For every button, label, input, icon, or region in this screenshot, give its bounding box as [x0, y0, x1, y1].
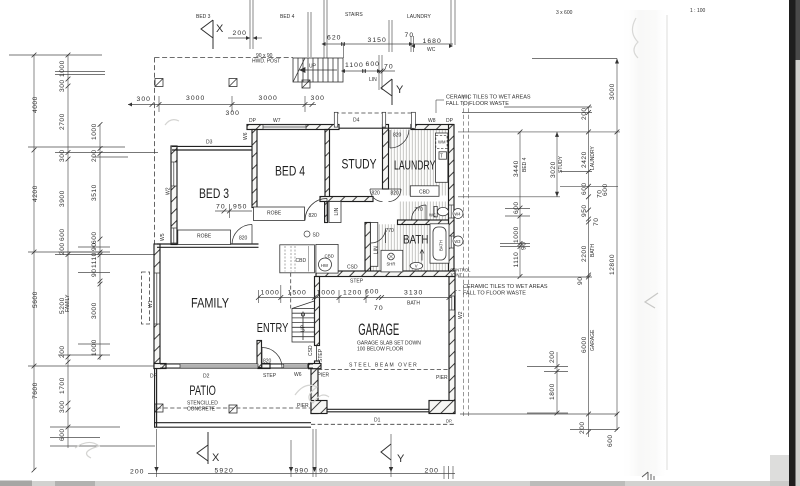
- svg-text:3000: 3000: [259, 95, 278, 102]
- svg-text:BATH: BATH: [590, 244, 596, 257]
- svg-text:90: 90: [521, 242, 528, 250]
- svg-text:1000: 1000: [317, 290, 336, 297]
- svg-text:FALL TO FLOOR WASTE: FALL TO FLOOR WASTE: [463, 291, 526, 297]
- svg-text:1 : 100: 1 : 100: [690, 8, 706, 14]
- svg-text:600: 600: [91, 231, 98, 244]
- svg-text:1800: 1800: [549, 383, 556, 400]
- svg-text:PATIO: PATIO: [189, 382, 216, 398]
- svg-text:BED 4: BED 4: [275, 164, 305, 179]
- svg-text:HW: HW: [321, 263, 329, 268]
- svg-text:600: 600: [513, 201, 520, 214]
- svg-text:3020: 3020: [550, 161, 557, 178]
- svg-text:12800: 12800: [609, 254, 616, 275]
- svg-text:770: 770: [386, 228, 395, 234]
- svg-text:300: 300: [226, 110, 241, 117]
- svg-text:W1: W1: [148, 300, 154, 308]
- svg-text:CERAMIC TILES TO WET AREAS: CERAMIC TILES TO WET AREAS: [446, 95, 531, 101]
- svg-text:600: 600: [366, 61, 381, 68]
- svg-text:LAUNDRY: LAUNDRY: [590, 146, 596, 170]
- svg-text:BED 4: BED 4: [280, 14, 295, 20]
- svg-text:WC: WC: [429, 213, 436, 218]
- svg-text:DP: DP: [150, 374, 158, 380]
- svg-text:3000: 3000: [609, 83, 616, 100]
- svg-text:BED 3: BED 3: [199, 186, 229, 201]
- svg-text:90: 90: [91, 269, 98, 277]
- svg-text:70: 70: [384, 64, 394, 71]
- svg-text:UP: UP: [301, 324, 307, 332]
- svg-text:ENTRY: ENTRY: [257, 321, 289, 335]
- svg-text:BATH: BATH: [403, 233, 429, 247]
- svg-text:W4: W4: [454, 212, 461, 217]
- svg-text:200: 200: [91, 149, 98, 162]
- svg-text:SD: SD: [313, 233, 320, 239]
- svg-text:600: 600: [365, 289, 380, 296]
- svg-text:W2: W2: [166, 187, 172, 195]
- svg-text:90: 90: [91, 243, 98, 251]
- svg-text:X: X: [216, 23, 224, 35]
- svg-text:FAMILY: FAMILY: [65, 294, 71, 312]
- svg-text:PIER: PIER: [318, 373, 330, 379]
- svg-text:FAMILY: FAMILY: [191, 295, 229, 310]
- svg-text:STAIRS: STAIRS: [345, 12, 363, 18]
- svg-text:1000: 1000: [261, 290, 280, 297]
- svg-text:X: X: [212, 452, 220, 464]
- svg-text:200: 200: [425, 468, 440, 475]
- svg-text:990: 990: [295, 468, 310, 475]
- svg-text:70: 70: [593, 218, 600, 226]
- svg-text:600: 600: [59, 428, 66, 441]
- svg-text:5600: 5600: [32, 291, 39, 308]
- svg-text:1000: 1000: [59, 60, 66, 77]
- svg-text:3510: 3510: [91, 184, 98, 201]
- svg-text:950: 950: [581, 204, 588, 217]
- svg-text:SHR: SHR: [387, 262, 396, 267]
- svg-text:LAUNDRY: LAUNDRY: [407, 14, 431, 20]
- svg-text:1000: 1000: [513, 226, 520, 243]
- svg-text:200: 200: [59, 242, 66, 255]
- svg-text:3440: 3440: [513, 160, 520, 177]
- svg-text:2700: 2700: [59, 113, 66, 130]
- svg-text:BATH: BATH: [439, 240, 444, 251]
- svg-text:200: 200: [130, 469, 145, 476]
- svg-text:D1: D1: [374, 418, 381, 424]
- svg-text:D4: D4: [353, 118, 360, 124]
- svg-text:70: 70: [216, 204, 226, 211]
- svg-text:300: 300: [59, 400, 66, 413]
- svg-text:600: 600: [581, 182, 588, 195]
- svg-text:D3: D3: [206, 140, 213, 146]
- svg-text:820: 820: [393, 133, 402, 139]
- svg-text:2200: 2200: [581, 245, 588, 262]
- svg-text:FALL TO FLOOR WASTE: FALL TO FLOOR WASTE: [446, 101, 509, 107]
- svg-text:3900: 3900: [59, 190, 66, 207]
- svg-text:7600: 7600: [32, 382, 39, 399]
- svg-text:1680: 1680: [423, 38, 442, 45]
- svg-text:1000: 1000: [91, 123, 98, 140]
- svg-text:STEEL BEAM OVER: STEEL BEAM OVER: [349, 363, 418, 369]
- svg-text:1200: 1200: [343, 290, 362, 297]
- svg-text:CONCRETE: CONCRETE: [187, 407, 216, 413]
- svg-text:3150: 3150: [368, 37, 387, 44]
- svg-text:GARAGE: GARAGE: [590, 329, 596, 351]
- svg-text:4200: 4200: [32, 185, 39, 202]
- svg-text:1000: 1000: [91, 339, 98, 356]
- svg-text:CSD: CSD: [308, 345, 314, 356]
- svg-text:70: 70: [374, 305, 384, 312]
- svg-text:820: 820: [263, 359, 272, 365]
- svg-text:W3: W3: [454, 239, 461, 244]
- svg-text:V: V: [415, 264, 418, 269]
- svg-text:1700: 1700: [59, 377, 66, 394]
- svg-text:CBD: CBD: [325, 254, 335, 259]
- svg-text:770: 770: [415, 207, 424, 213]
- svg-text:620: 620: [327, 35, 342, 42]
- svg-text:CERAMIC TILES TO WET AREAS: CERAMIC TILES TO WET AREAS: [463, 284, 548, 290]
- svg-text:LIN: LIN: [374, 246, 380, 254]
- svg-text:3130: 3130: [404, 290, 423, 297]
- svg-text:820: 820: [391, 191, 400, 197]
- svg-text:1100: 1100: [345, 62, 364, 69]
- svg-text:90: 90: [577, 277, 584, 285]
- svg-text:1110: 1110: [513, 252, 520, 268]
- svg-text:STUDY: STUDY: [558, 155, 564, 173]
- svg-text:W6: W6: [243, 132, 249, 140]
- svg-text:LIN: LIN: [334, 207, 340, 215]
- svg-text:1500: 1500: [288, 290, 307, 297]
- svg-text:W5: W5: [160, 233, 166, 241]
- svg-text:200: 200: [59, 345, 66, 358]
- svg-text:DP: DP: [446, 118, 454, 124]
- svg-text:600: 600: [607, 434, 614, 447]
- svg-text:70: 70: [597, 190, 604, 198]
- svg-text:GARAGE: GARAGE: [358, 321, 399, 339]
- svg-text:70: 70: [405, 32, 415, 39]
- svg-text:T: T: [440, 154, 443, 160]
- svg-text:820: 820: [239, 236, 248, 242]
- svg-text:CSD: CSD: [347, 265, 358, 271]
- svg-text:UP: UP: [309, 64, 317, 70]
- svg-text:LIN: LIN: [369, 77, 377, 83]
- svg-text:300: 300: [137, 96, 152, 103]
- svg-text:CBD: CBD: [296, 258, 307, 264]
- svg-text:1110: 1110: [91, 252, 98, 268]
- svg-text:200: 200: [581, 107, 588, 120]
- svg-text:HWD. POST: HWD. POST: [252, 59, 280, 65]
- svg-text:ROBE: ROBE: [267, 211, 282, 217]
- svg-text:820: 820: [372, 191, 381, 197]
- svg-text:Y: Y: [396, 84, 404, 96]
- svg-text:200: 200: [579, 421, 586, 434]
- svg-text:200: 200: [233, 30, 248, 37]
- svg-text:STEP: STEP: [263, 373, 277, 379]
- svg-text:STEP: STEP: [350, 279, 364, 285]
- svg-text:BATH: BATH: [407, 301, 420, 307]
- svg-text:6000: 6000: [581, 336, 588, 353]
- svg-text:BED 3: BED 3: [196, 14, 211, 20]
- svg-text:W8: W8: [428, 118, 436, 124]
- svg-text:PIER: PIER: [436, 375, 448, 381]
- svg-text:W2: W2: [458, 311, 464, 319]
- svg-text:ROBE: ROBE: [197, 234, 212, 240]
- svg-text:300: 300: [311, 95, 326, 102]
- svg-text:PIER: PIER: [297, 403, 309, 409]
- svg-text:600: 600: [59, 228, 66, 241]
- svg-text:Y: Y: [397, 453, 405, 465]
- svg-text:STUDY: STUDY: [342, 155, 377, 171]
- svg-text:820: 820: [309, 213, 318, 219]
- svg-text:STEP: STEP: [318, 348, 324, 362]
- svg-text:W7: W7: [273, 118, 281, 124]
- svg-text:3000: 3000: [186, 95, 205, 102]
- svg-text:3 x 600: 3 x 600: [556, 10, 573, 16]
- svg-text:5920: 5920: [215, 468, 234, 475]
- svg-text:WM: WM: [438, 140, 446, 145]
- svg-text:CBD: CBD: [419, 190, 430, 196]
- svg-text:300: 300: [59, 79, 66, 92]
- svg-text:WC: WC: [427, 47, 436, 53]
- svg-text:D2: D2: [203, 374, 210, 380]
- svg-text:BED 4: BED 4: [522, 157, 528, 172]
- svg-text:3000: 3000: [91, 302, 98, 319]
- svg-text:100 BELOW FLOOR: 100 BELOW FLOOR: [357, 347, 404, 353]
- svg-text:2420: 2420: [581, 151, 588, 168]
- svg-text:4000: 4000: [32, 96, 39, 113]
- svg-text:W6: W6: [294, 372, 302, 378]
- svg-text:DP.: DP.: [446, 419, 452, 424]
- svg-text:DP: DP: [249, 118, 257, 124]
- svg-text:300: 300: [59, 149, 66, 162]
- svg-text:90: 90: [319, 468, 329, 475]
- svg-text:950: 950: [233, 204, 248, 211]
- svg-text:200: 200: [549, 350, 556, 363]
- svg-text:LAUNDRY: LAUNDRY: [394, 158, 436, 173]
